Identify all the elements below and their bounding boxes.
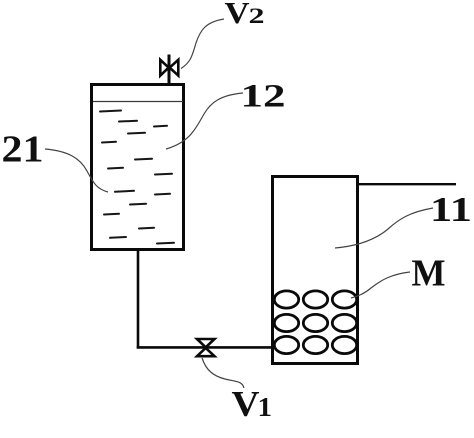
leader to valve V1 xyxy=(202,358,244,388)
svg-text:1: 1 xyxy=(258,391,273,422)
tank 21 body xyxy=(92,85,184,250)
svg-text:V: V xyxy=(225,0,251,30)
liquid dashes in tank 21 xyxy=(100,111,174,244)
media balls M in tank 11 xyxy=(274,291,356,354)
tank 11 body xyxy=(273,177,358,364)
valve V2 xyxy=(160,55,178,84)
liquid level line xyxy=(93,101,183,103)
svg-text:2: 2 xyxy=(249,3,265,28)
leader from 12 into tank 21 xyxy=(166,93,243,149)
label V1 xyxy=(232,384,273,424)
label 21 xyxy=(2,128,44,170)
svg-text:21: 21 xyxy=(2,128,44,170)
label 12 xyxy=(241,78,286,114)
wire: outlet line from tank 11 xyxy=(358,183,456,185)
svg-text:V: V xyxy=(232,384,260,424)
leader to valve V2 xyxy=(181,19,224,69)
wire: pipe down from tank 21 xyxy=(137,250,140,349)
leader from M to media balls xyxy=(351,272,410,298)
leader from 21 into tank 21 xyxy=(45,149,108,192)
valve V1 xyxy=(197,339,215,356)
svg-text:11: 11 xyxy=(430,190,472,229)
label M xyxy=(412,252,446,294)
svg-text:12: 12 xyxy=(241,78,286,114)
leader from 11 into tank 11 xyxy=(335,208,433,248)
label V2 xyxy=(225,0,265,30)
label 11 xyxy=(430,190,472,229)
wire: horizontal pipe to tank 11 xyxy=(137,346,272,349)
svg-text:M: M xyxy=(412,252,446,294)
